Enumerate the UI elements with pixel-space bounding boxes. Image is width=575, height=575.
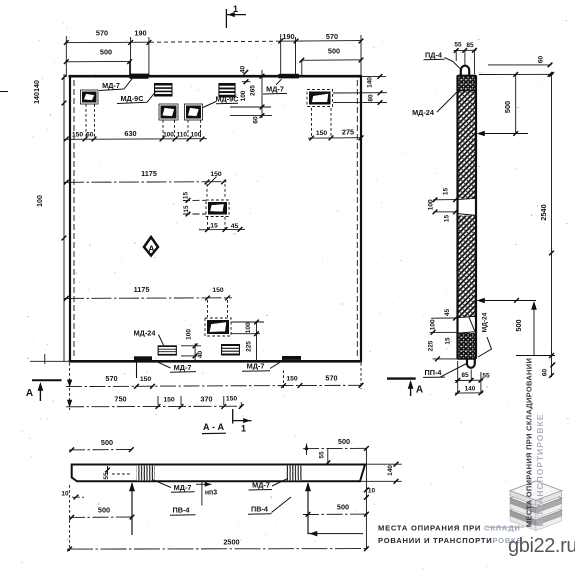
svg-text:А: А: [26, 388, 33, 399]
svg-text:100: 100: [37, 195, 44, 207]
svg-text:МЕСТА ОПИРАНИЯ ПРИ СКЛАДИ: МЕСТА ОПИРАНИЯ ПРИ СКЛАДИ: [378, 524, 521, 533]
svg-text:100: 100: [428, 199, 435, 210]
svg-text:370: 370: [200, 395, 212, 404]
svg-text:60: 60: [542, 369, 549, 377]
svg-text:150: 150: [316, 130, 328, 137]
svg-text:ПВ-4: ПВ-4: [251, 505, 269, 514]
svg-text:15: 15: [210, 223, 218, 230]
svg-text:МД-7: МД-7: [252, 481, 270, 490]
svg-text:60: 60: [86, 132, 94, 139]
svg-text:500: 500: [514, 319, 523, 331]
svg-text:1: 1: [233, 4, 238, 14]
svg-text:15: 15: [183, 192, 190, 200]
svg-text:500: 500: [98, 506, 110, 515]
svg-text:40: 40: [197, 351, 204, 359]
svg-text:100: 100: [430, 319, 437, 330]
svg-text:ПД-4: ПД-4: [425, 51, 443, 60]
svg-text:140: 140: [34, 80, 41, 92]
svg-text:150: 150: [286, 376, 298, 383]
svg-text:140: 140: [34, 92, 41, 104]
svg-text:40: 40: [240, 66, 247, 74]
svg-text:630: 630: [124, 129, 136, 138]
svg-text:225: 225: [428, 340, 435, 351]
svg-text:60: 60: [538, 56, 545, 64]
svg-text:МД-7: МД-7: [102, 81, 120, 90]
svg-text:2500: 2500: [223, 538, 239, 547]
svg-text:МД-9С: МД-9С: [120, 94, 144, 103]
svg-text:МД-7: МД-7: [174, 483, 192, 492]
svg-text:500: 500: [101, 438, 113, 447]
svg-text:15: 15: [443, 188, 450, 196]
svg-text:МД-24: МД-24: [482, 312, 489, 332]
svg-text:1175: 1175: [134, 285, 150, 294]
svg-text:150: 150: [163, 397, 175, 404]
svg-text:2540: 2540: [539, 204, 548, 220]
svg-text:10: 10: [61, 491, 69, 498]
svg-text:10: 10: [368, 488, 376, 495]
svg-text:275: 275: [342, 128, 354, 137]
svg-text:РОВАНИИ И ТРАНСПОРТИРОВКЕ: РОВАНИИ И ТРАНСПОРТИРОВКЕ: [378, 536, 522, 545]
svg-text:100: 100: [245, 322, 252, 333]
svg-text:570: 570: [96, 29, 108, 38]
svg-text:МД-7: МД-7: [174, 363, 192, 372]
svg-text:МД-9С: МД-9С: [215, 95, 239, 104]
svg-text:15: 15: [444, 215, 451, 223]
svg-text:85: 85: [466, 42, 474, 49]
svg-text:140: 140: [465, 386, 476, 393]
svg-text:ПВ-4: ПВ-4: [172, 506, 190, 515]
svg-text:225: 225: [246, 341, 253, 352]
svg-text:570: 570: [325, 374, 337, 383]
svg-text:нп3: нп3: [205, 490, 217, 497]
svg-text:570: 570: [326, 32, 338, 41]
svg-text:500: 500: [337, 503, 349, 512]
svg-text:80: 80: [368, 94, 375, 102]
svg-text:МД-7: МД-7: [247, 362, 265, 371]
svg-text:А - А: А - А: [203, 422, 224, 432]
svg-text:150: 150: [226, 396, 238, 403]
svg-text:265: 265: [250, 85, 257, 96]
svg-text:150: 150: [140, 376, 152, 383]
svg-text:150: 150: [72, 132, 84, 139]
svg-text:55: 55: [482, 373, 490, 380]
svg-text:И ТРАНСПОРТИРОВКЕ: И ТРАНСПОРТИРОВКЕ: [535, 414, 545, 527]
svg-text:500: 500: [338, 437, 350, 446]
svg-text:500: 500: [503, 101, 512, 113]
svg-text:45: 45: [231, 223, 239, 230]
svg-text:А: А: [416, 385, 423, 396]
svg-text:500: 500: [100, 48, 112, 57]
svg-text:750: 750: [114, 395, 126, 404]
svg-text:110: 110: [177, 132, 188, 139]
svg-text:МД-24: МД-24: [412, 108, 435, 117]
svg-text:15: 15: [445, 337, 452, 345]
svg-text:МЕСТА ОПИРАНИЯ ПРИ СКЛАДИРОВАН: МЕСТА ОПИРАНИЯ ПРИ СКЛАДИРОВАНИИ: [525, 358, 534, 527]
svg-text:1: 1: [241, 424, 246, 434]
svg-text:140: 140: [367, 77, 374, 88]
svg-text:100: 100: [185, 329, 192, 340]
svg-text:55: 55: [319, 451, 326, 459]
svg-text:ПП-4: ПП-4: [425, 368, 443, 377]
svg-text:МД-24: МД-24: [134, 329, 157, 338]
svg-text:55: 55: [103, 472, 110, 480]
svg-text:190: 190: [134, 29, 146, 38]
svg-text:45: 45: [444, 309, 451, 317]
svg-text:60: 60: [253, 116, 260, 124]
svg-text:gbi22.ru: gbi22.ru: [508, 535, 575, 557]
svg-text:140: 140: [387, 465, 394, 476]
svg-text:А: А: [148, 244, 154, 254]
svg-text:15: 15: [183, 205, 190, 213]
svg-text:85: 85: [461, 372, 469, 379]
svg-text:1175: 1175: [141, 169, 157, 178]
svg-text:190: 190: [282, 32, 294, 41]
svg-text:500: 500: [328, 47, 340, 56]
svg-text:570: 570: [105, 374, 117, 383]
svg-text:100: 100: [163, 132, 174, 139]
svg-text:МД-7: МД-7: [266, 85, 284, 94]
svg-text:55: 55: [454, 42, 462, 49]
svg-text:100: 100: [240, 90, 247, 101]
svg-text:150: 150: [212, 287, 224, 294]
